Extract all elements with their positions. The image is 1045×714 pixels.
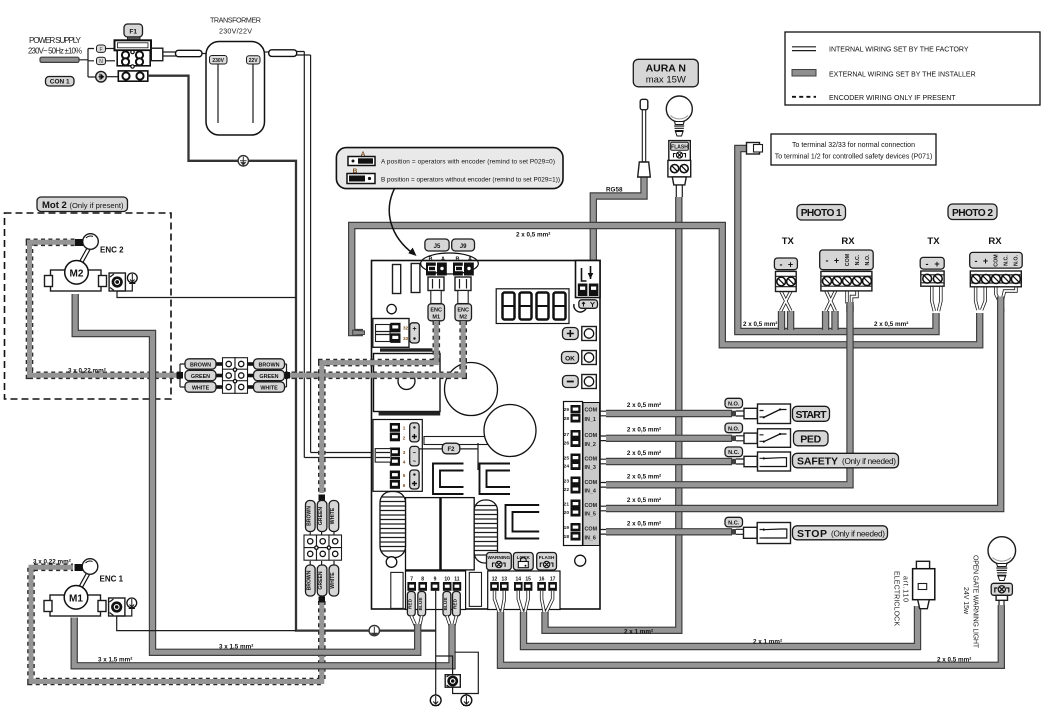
svg-text:26: 26 (564, 441, 570, 447)
svg-text:F: F (99, 47, 102, 53)
svg-text:15: 15 (525, 577, 531, 583)
svg-text:F1: F1 (129, 29, 137, 36)
svg-text:START: START (796, 409, 828, 421)
svg-text:25: 25 (564, 456, 570, 462)
svg-text:RX: RX (988, 236, 1002, 247)
svg-text:(Only if needed): (Only if needed) (831, 530, 885, 539)
plug under J5 (428, 277, 444, 291)
badge N (97, 57, 106, 64)
board outline (372, 261, 601, 610)
legend box (785, 32, 1040, 105)
svg-text:art.110: art.110 (902, 576, 909, 602)
svg-text:1: 1 (403, 426, 406, 431)
SECTION:MOTORS (5, 148, 564, 706)
bottom terminals 7-11 (406, 571, 466, 610)
WARNING badge (487, 553, 512, 571)
svg-text:RG58: RG58 (606, 187, 623, 194)
START switch (758, 404, 791, 424)
svg-text:WHITE: WHITE (330, 572, 336, 589)
PED badge (794, 431, 829, 446)
SAFETY badge (793, 453, 899, 468)
svg-text:INTERNAL WIRING SET BY THE FAC: INTERNAL WIRING SET BY THE FACTORY (829, 47, 969, 54)
SECTION:FLASHTOP (501, 59, 1002, 665)
svg-text:N.O.: N.O. (865, 254, 871, 265)
RX1 crossing wires + COM/NC pair (826, 291, 836, 311)
F2 fuse (424, 437, 488, 445)
svg-text:AURA N: AURA N (646, 63, 686, 75)
svg-text:2 x 0,5 mm²: 2 x 0,5 mm² (627, 520, 661, 527)
svg-text:TRANSFORMER: TRANSFORMER (210, 16, 261, 25)
svg-text:32: 32 (403, 326, 409, 331)
IN_5 wire to photo2 rx (599, 506, 608, 511)
svg-text:COM: COM (994, 254, 1000, 267)
svg-text:EXTERNAL WIRING SET BY THE INS: EXTERNAL WIRING SET BY THE INSTALLER (829, 72, 976, 79)
svg-text:33: 33 (403, 336, 409, 341)
terminal 32/33 connector (373, 319, 409, 348)
svg-text:2 x 0,5 mm²: 2 x 0,5 mm² (627, 402, 661, 409)
jumper J9 block (453, 263, 463, 276)
SECTION:BOARD (372, 239, 601, 626)
antenna terminal (576, 261, 601, 298)
svg-text:PHOTO 1: PHOTO 1 (801, 208, 842, 219)
svg-text:IN_4: IN_4 (585, 489, 596, 495)
svg-text:2 x 0,5 mm²: 2 x 0,5 mm² (627, 473, 661, 480)
svg-text:BROWN: BROWN (306, 506, 312, 526)
svg-text:-: - (926, 259, 929, 269)
svg-text:2 x 0,5 mm²: 2 x 0,5 mm² (516, 232, 550, 239)
svg-text:N.C.: N.C. (728, 450, 740, 456)
svg-text:A position = operators with en: A position = operators with encoder (rem… (381, 159, 555, 166)
svg-text:WARNING: WARNING (487, 555, 510, 560)
svg-text:B: B (429, 256, 433, 262)
svg-text:M2: M2 (459, 314, 467, 320)
IN_4 wire to photo1 rx (599, 483, 608, 488)
warning light wire (501, 605, 1002, 665)
svg-text:max 15W: max 15W (646, 75, 686, 86)
note box wire (738, 149, 936, 332)
SAFETY switch (N.C.) (758, 452, 791, 471)
svg-text:3 x 0,22 mm²: 3 x 0,22 mm² (33, 559, 71, 566)
svg-text:OK: OK (565, 355, 575, 362)
svg-text:BROWN: BROWN (190, 363, 211, 369)
plug under J9 (455, 277, 471, 291)
encoder bus M1 (ENC M1 to vertical connector to ENC 1) (322, 321, 437, 493)
photo1 badge (797, 205, 846, 221)
svg-text:22: 22 (564, 487, 570, 493)
plus button (563, 328, 579, 340)
svg-text:14: 14 (516, 577, 522, 583)
svg-text:6: 6 (403, 483, 406, 488)
electriclock (893, 561, 935, 626)
RX2 wires (976, 287, 986, 310)
svg-text:N: N (99, 59, 103, 65)
CON 1 badge (46, 77, 75, 87)
M2 earth thin wire (117, 291, 296, 298)
M2 motor cable (75, 294, 418, 652)
svg-text:M1: M1 (69, 594, 83, 605)
STOP badge (793, 526, 888, 540)
svg-text:+: + (788, 260, 793, 270)
svg-text:FLASH: FLASH (539, 555, 555, 560)
svg-text:WHITE: WHITE (260, 386, 278, 392)
fuse block (115, 40, 152, 50)
flash wire column (terminals 16/17 up to flash module) (545, 197, 679, 630)
PED switch (758, 429, 791, 448)
note box (771, 134, 936, 165)
svg-text:27: 27 (564, 432, 570, 438)
display (496, 289, 569, 324)
svg-text:N.C.: N.C. (728, 521, 740, 527)
svg-text:B: B (456, 256, 460, 262)
svg-text:17: 17 (550, 577, 556, 583)
earth symbol (96, 71, 107, 82)
svg-text:To terminal 1/2 for controlled: To terminal 1/2 for controlled safety de… (775, 154, 933, 161)
svg-text:11: 11 (454, 577, 460, 583)
SECTION:POWER (28, 16, 436, 636)
RED/BLUE wire capsules (407, 592, 460, 617)
svg-text:230V/22V: 230V/22V (219, 27, 252, 36)
jumper ellipse (421, 253, 479, 274)
motor M2 (45, 234, 138, 291)
svg-text:BLUE: BLUE (443, 597, 449, 611)
wire fuse to transformer (151, 48, 163, 61)
small rects top-left (393, 265, 401, 294)
svg-text:N.O.: N.O. (1014, 255, 1020, 266)
svg-text:3 x 1,5 mm²: 3 x 1,5 mm² (219, 644, 253, 651)
svg-text:23: 23 (564, 479, 570, 485)
terminal block 1-6 (373, 420, 422, 492)
svg-text:~: ~ (413, 451, 417, 457)
svg-text:ENC 1: ENC 1 (100, 575, 124, 584)
svg-text:BROWN: BROWN (306, 570, 312, 590)
svg-text:IN_6: IN_6 (585, 536, 596, 542)
svg-text:24V 15w: 24V 15w (962, 587, 969, 615)
svg-text:COM: COM (585, 433, 598, 439)
svg-text:20: 20 (564, 510, 570, 516)
svg-text:-: - (975, 256, 978, 266)
svg-text:M2: M2 (70, 269, 84, 280)
hole circle (387, 304, 396, 313)
TX1 wire stubs (778, 311, 785, 330)
svg-text:GREEN: GREEN (191, 374, 210, 380)
svg-text:GREEN: GREEN (318, 571, 324, 589)
RG58 antenna cable (593, 176, 644, 262)
hole circle 2 (under encoder buses) (398, 373, 415, 390)
coil 2 (474, 500, 497, 563)
svg-text:GREEN: GREEN (318, 507, 324, 525)
svg-text:+: + (983, 256, 988, 266)
svg-text:2 x 0,5 mm²: 2 x 0,5 mm² (627, 427, 661, 434)
M1 motor cable (74, 618, 452, 666)
svg-text:2 x 0,5 mm²: 2 x 0,5 mm² (937, 657, 971, 664)
svg-text:3: 3 (403, 450, 406, 455)
ground symbol 2 (461, 695, 472, 706)
SECTION:RIGHTROWS (599, 305, 1001, 544)
svg-text:(Only if needed): (Only if needed) (842, 457, 896, 466)
BGW horizontal connector (177, 358, 291, 394)
svg-text:N.C.: N.C. (1004, 255, 1010, 266)
svg-text:22V: 22V (249, 58, 259, 64)
ENC M2 badge (455, 304, 472, 321)
TX2 wires (932, 286, 941, 311)
svg-text:STOP: STOP (797, 528, 827, 540)
svg-text:230V~ 50Hz ±10%: 230V~ 50Hz ±10% (28, 47, 82, 56)
SECTION:BOTTOMRIGHT (624, 537, 1016, 664)
svg-text:BROWN: BROWN (259, 363, 280, 369)
svg-text:TX: TX (927, 236, 940, 247)
svg-text:TX: TX (782, 236, 795, 247)
svg-text:IN_3: IN_3 (585, 465, 596, 471)
svg-text:Mot 2 (Only if present): Mot 2 (Only if present) (42, 200, 124, 211)
svg-text:SAFETY: SAFETY (797, 456, 838, 468)
svg-text:RX: RX (841, 236, 855, 247)
svg-text:ENC 2: ENC 2 (100, 246, 124, 255)
svg-text:POWER SUPPLY: POWER SUPPLY (29, 36, 82, 45)
plug for 3/4 (22V input) (375, 449, 391, 463)
svg-text:230V: 230V (212, 58, 224, 64)
svg-text:2 x 1 mm²: 2 x 1 mm² (624, 629, 653, 636)
IN_3 SAFETY wire (599, 459, 608, 464)
svg-text:COM: COM (585, 408, 598, 414)
svg-text:8: 8 (421, 577, 424, 583)
svg-text:COM: COM (585, 527, 598, 533)
svg-text:GREEN: GREEN (259, 374, 278, 380)
F1 fuse label (124, 24, 143, 37)
svg-text:5: 5 (403, 473, 406, 478)
minus button (563, 376, 579, 388)
svg-text:3 x 1,5 mm²: 3 x 1,5 mm² (98, 657, 132, 664)
svg-text:COM: COM (585, 480, 598, 486)
pcb bar under 32/33 (380, 348, 433, 351)
svg-text:IN_5: IN_5 (585, 512, 596, 518)
svg-text:+: + (934, 259, 939, 269)
AURA N badge (633, 59, 698, 87)
antenna (640, 99, 648, 110)
svg-text:M1: M1 (432, 314, 440, 320)
svg-text:N.O.: N.O. (728, 426, 740, 432)
svg-text:+: + (412, 326, 416, 333)
bracket contacts 1 (433, 464, 539, 539)
svg-text:N.C.: N.C. (855, 254, 861, 265)
svg-text:18: 18 (564, 534, 570, 540)
START badge (793, 406, 830, 421)
earth junction circle 1 (238, 156, 248, 166)
IN_1 START wire (599, 411, 608, 416)
J5 J9 badges (425, 239, 449, 251)
svg-text:12: 12 (492, 577, 498, 583)
svg-text:IN_2: IN_2 (585, 442, 596, 448)
right terminal strip (564, 402, 583, 546)
IN_6 STOP wire (599, 530, 608, 535)
mains cable (40, 57, 79, 62)
svg-text:+: + (834, 256, 839, 266)
light bulb (666, 96, 692, 122)
big module (374, 354, 441, 412)
svg-text:WHITE: WHITE (192, 386, 210, 392)
svg-text:24: 24 (564, 464, 570, 470)
badge F (97, 45, 106, 52)
electriclock wire (524, 606, 918, 647)
svg-text:2 x 1 mm²: 2 x 1 mm² (753, 639, 782, 646)
svg-text:19: 19 (564, 525, 570, 531)
svg-text:ENC: ENC (430, 307, 442, 313)
svg-text:~: ~ (413, 460, 417, 466)
svg-text:9: 9 (434, 577, 437, 583)
svg-text:21: 21 (564, 502, 570, 508)
jumper callout box (336, 148, 563, 256)
SECTION:LEGEND (738, 32, 1040, 332)
big capacitor circles (445, 363, 498, 416)
transformer body (206, 42, 265, 136)
svg-text:A: A (441, 256, 445, 262)
coil 1 (380, 492, 406, 568)
svg-text:4: 4 (403, 460, 406, 465)
M1 earth thin wire (117, 616, 296, 631)
svg-text:13: 13 (502, 577, 508, 583)
svg-text:28: 28 (564, 416, 570, 422)
svg-text:2 x 0,5 mm²: 2 x 0,5 mm² (627, 497, 661, 504)
svg-text:16: 16 (539, 577, 545, 583)
svg-text:F2: F2 (447, 447, 455, 453)
BGW vertical connector (304, 495, 342, 603)
SECTION:PHOTO (352, 204, 1023, 345)
svg-text:J9: J9 (460, 244, 467, 250)
svg-text:29: 29 (564, 407, 570, 413)
bottom terminals 12-17 (488, 571, 560, 610)
svg-text:A: A (468, 256, 472, 262)
svg-text:COM: COM (585, 457, 598, 463)
STOP switch (N.C.) (757, 523, 790, 544)
earth junction circle 2 (369, 625, 379, 635)
svg-text:3 x 0,22 mm²: 3 x 0,22 mm² (68, 367, 106, 374)
transformer right wire down to board terminals 3/4 (265, 51, 270, 53)
relay boxes (406, 498, 440, 570)
svg-text:B position = operators without: B position = operators without encoder (… (381, 177, 560, 184)
svg-text:2 x 0,5 mm²: 2 x 0,5 mm² (743, 321, 777, 328)
svg-text:RED: RED (453, 598, 459, 609)
note box connector (747, 143, 760, 155)
svg-text:2: 2 (403, 436, 406, 441)
strip terminals + labels (564, 407, 570, 540)
svg-text:ENC: ENC (457, 307, 469, 313)
earth wire from fuse to board (148, 76, 436, 631)
svg-text:COM: COM (585, 503, 598, 509)
svg-text:-: - (826, 256, 829, 266)
svg-text:J5: J5 (434, 244, 441, 250)
svg-text:BLUE: BLUE (418, 597, 424, 611)
open gate warning light (962, 537, 1016, 649)
svg-text:RED: RED (408, 598, 414, 609)
ok button (562, 352, 579, 364)
photo2 badge (948, 204, 997, 220)
svg-text:COM: COM (845, 253, 851, 266)
svg-text:To terminal 32/33 for normal c: To terminal 32/33 for normal connection (792, 142, 915, 149)
svg-text:10: 10 (444, 577, 450, 583)
ground symbol 1 (430, 695, 441, 706)
accessory power bus from terminal 32/33 (352, 226, 980, 345)
svg-text:ENCODER WIRING ONLY IF PRESENT: ENCODER WIRING ONLY IF PRESENT (829, 95, 956, 102)
svg-text:ELECTRICLOCK: ELECTRICLOCK (893, 571, 900, 626)
svg-text:WHITE: WHITE (330, 507, 336, 524)
Mot 2 dashed enclosure (5, 213, 172, 399)
svg-text:CON 1: CON 1 (50, 79, 70, 86)
jumper J5 block (426, 263, 436, 276)
terminal 9 wire + suppressor capacitor (436, 591, 479, 695)
hole circle bottom right (575, 555, 586, 566)
svg-text:N.O.: N.O. (728, 402, 740, 408)
FLASH badge (537, 553, 557, 571)
LOCK badge (513, 553, 533, 571)
IN_2 PED wire (599, 436, 608, 441)
encoder bus M2 (ENC M2 to ENC 2) (285, 321, 463, 375)
flash module (669, 141, 691, 161)
svg-text:7: 7 (410, 577, 413, 583)
svg-text:2 x 0,5 mm²: 2 x 0,5 mm² (874, 321, 908, 328)
RX1 wire stubs (822, 311, 829, 330)
svg-text:2 x 0,5 mm²: 2 x 0,5 mm² (627, 450, 661, 457)
svg-text:PHOTO 2: PHOTO 2 (952, 208, 993, 219)
svg-text:PED: PED (800, 434, 821, 446)
svg-text:IN_1: IN_1 (585, 417, 596, 423)
svg-text:OPEN GATE WARNING LIGHT: OPEN GATE WARNING LIGHT (972, 555, 979, 649)
ENC M1 badge (428, 304, 445, 321)
svg-text:FLASH: FLASH (671, 145, 688, 151)
TX1 crossing wires (781, 291, 791, 311)
motor M1 (44, 559, 137, 616)
svg-text:-: - (780, 260, 783, 270)
